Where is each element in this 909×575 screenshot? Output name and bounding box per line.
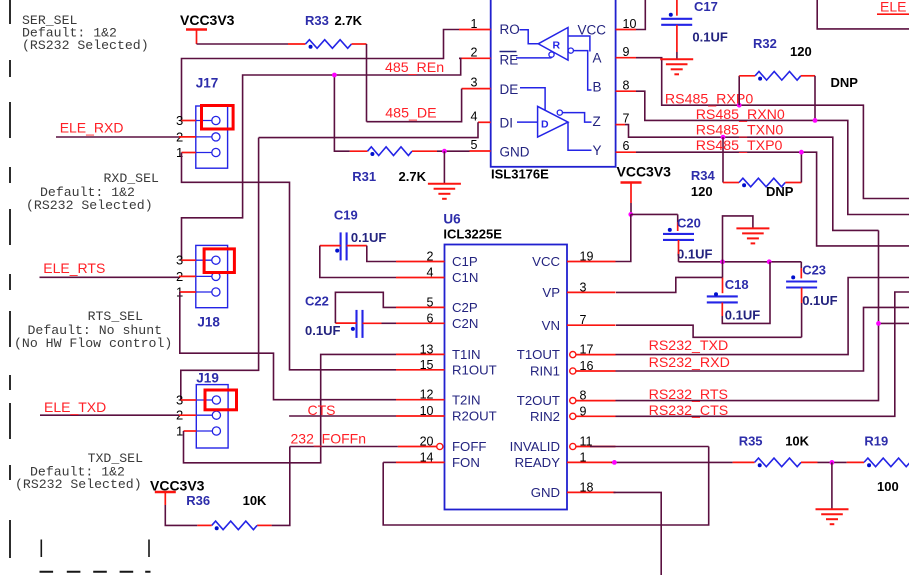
svg-text:J19: J19: [196, 371, 219, 386]
wire DE to driver enable: [520, 88, 545, 110]
svg-text:DI: DI: [500, 116, 514, 131]
svg-text:1: 1: [176, 423, 183, 438]
svg-text:C20: C20: [677, 216, 701, 231]
pin stub J17 pin1: [182, 152, 196, 154]
wire ELE_TXD: [40, 414, 179, 416]
svg-text:3: 3: [471, 76, 478, 90]
svg-text:DNP: DNP: [831, 75, 859, 90]
svg-text:RIN2: RIN2: [530, 409, 560, 424]
svg-text:VP: VP: [542, 285, 560, 300]
J18 shunt highlight red box: [204, 249, 234, 273]
svg-text:RIN1: RIN1: [530, 364, 560, 379]
svg-text:T1OUT: T1OUT: [517, 347, 560, 362]
wire VN pin7 to C23: [616, 325, 802, 337]
svg-text:RS485_RXN0: RS485_RXN0: [696, 107, 785, 123]
connector J18 pin2 circle: [196, 275, 212, 277]
svg-text:RS485_TXN0: RS485_TXN0: [696, 122, 784, 138]
svg-text:C19: C19: [334, 208, 358, 223]
svg-text:4: 4: [471, 110, 478, 124]
svg-text:RS232_RXD: RS232_RXD: [649, 355, 730, 371]
svg-text:T2OUT: T2OUT: [517, 393, 560, 408]
wire VP pin3 to C18: [616, 277, 723, 292]
wire 485_DE net: [367, 89, 462, 122]
pin stub J17 pin3: [182, 120, 196, 122]
junction TXN0 R34: [721, 135, 726, 140]
wire ground path from rail: [723, 216, 753, 262]
pin stub U6-4: [396, 277, 445, 279]
svg-text:INVALID: INVALID: [510, 439, 560, 454]
svg-text:RS485_TXP0: RS485_TXP0: [696, 138, 783, 154]
svg-text:485_DE: 485_DE: [385, 105, 436, 121]
svg-text:Y: Y: [593, 143, 602, 158]
svg-text:R34: R34: [691, 168, 716, 183]
svg-text:U6: U6: [443, 212, 461, 227]
wire FON pin14 feed: [383, 461, 396, 463]
wire R36 pullup leg: [272, 447, 290, 526]
pin stub U6-9: [570, 413, 576, 419]
svg-text:VCC3V3: VCC3V3: [617, 164, 672, 180]
wire R32 right leg: [814, 76, 816, 121]
wire R34 right leg: [800, 152, 802, 182]
wire C22 right plate to C2N pin6: [363, 322, 382, 324]
junction rail C18: [720, 259, 725, 264]
wire GND pin18 net: [614, 492, 662, 575]
svg-text:ISL3176E: ISL3176E: [491, 167, 549, 182]
pin stub U6-18: [567, 491, 616, 493]
wire C23 bottom stub: [801, 288, 803, 303]
svg-text:120: 120: [691, 184, 713, 199]
wire C18 bottom return loop: [721, 303, 723, 317]
pin stub U6-6: [396, 322, 445, 324]
wire to ground below R31: [443, 151, 445, 183]
junction R31-GND: [442, 149, 447, 154]
svg-text:6: 6: [623, 139, 630, 153]
J19 shunt highlight red box: [205, 390, 237, 410]
svg-text:R36: R36: [186, 493, 210, 508]
wire READY pin1 net: [612, 461, 733, 463]
wire R32 left leg: [738, 76, 740, 105]
wire RS485_RXP0 from pin9 A: [636, 58, 909, 199]
svg-text:GND: GND: [531, 485, 560, 500]
pin stub ISL pin9: [616, 57, 636, 59]
ground under R35: [816, 508, 849, 510]
svg-text:R35: R35: [739, 434, 763, 449]
svg-text:(RS232 Selected): (RS232 Selected): [26, 198, 153, 213]
wire VCC3V3 to C20: [631, 213, 678, 215]
wire red stub R36 left: [197, 524, 212, 526]
wire receiver input A: [568, 36, 590, 52]
svg-text:0.1UF: 0.1UF: [725, 308, 760, 323]
svg-text:VCC3V3: VCC3V3: [150, 478, 205, 494]
connector J19 body: [196, 385, 228, 448]
transceiver ISL3176E box: [491, 0, 616, 167]
resistor R19: [864, 458, 909, 467]
wire red stub R31 left: [350, 150, 368, 152]
junction RXN0 R32: [813, 118, 818, 123]
svg-text:C17: C17: [694, 0, 718, 14]
svg-text:10K: 10K: [243, 493, 267, 508]
wire R33 to 485_DE line: [366, 44, 368, 122]
wire red stub R35 right: [801, 461, 818, 463]
pin stub U6-11: [570, 443, 576, 449]
svg-text:T2IN: T2IN: [452, 392, 481, 407]
wire CTS to R2OUT pin10: [289, 415, 396, 417]
resistor R35: [755, 458, 801, 467]
junction R31 left on 485_REn: [334, 75, 349, 151]
connector J19 pin3 circle: [196, 399, 212, 401]
wire ELE box corner top right: [817, 0, 909, 29]
svg-text:DE: DE: [500, 82, 519, 97]
pin stub ISL pin10: [616, 29, 636, 31]
svg-text:R32: R32: [753, 36, 777, 51]
svg-text:VCC: VCC: [532, 254, 560, 269]
wire C17 bottom stub: [676, 25, 678, 52]
svg-text:2.7K: 2.7K: [335, 13, 363, 28]
power VCC3V3 bottom symbol: [155, 491, 176, 493]
wire RO net: chip pin1 to J17 pin3: [182, 30, 460, 121]
pin stub U6-1: [567, 461, 616, 463]
svg-text:FON: FON: [452, 455, 480, 470]
svg-text:232_FOFFn: 232_FOFFn: [291, 431, 366, 447]
wire 485_REn net: [182, 58, 461, 259]
svg-text:(RS232 Selected): (RS232 Selected): [15, 477, 142, 492]
wire RS232_RTS: [616, 230, 879, 400]
svg-text:(RS232 Selected): (RS232 Selected): [22, 38, 149, 53]
wire red stub R19 left: [847, 461, 864, 463]
svg-text:C2N: C2N: [452, 316, 478, 331]
wire RS232_RXD: [616, 307, 909, 371]
wire C19 left plate to C1N pin4: [320, 245, 341, 247]
capacitor C18: [707, 295, 738, 297]
wire ELE_RXD: [56, 136, 179, 138]
pin stub U6-14: [396, 461, 445, 463]
wire R36 to VCC3V3: [165, 505, 197, 525]
wire RS485_RXN0 from pin8 B: [636, 91, 909, 214]
pin stub J18 pin3: [182, 259, 196, 261]
wire RS232_CTS: [616, 292, 909, 416]
connector J19 pin1 circle: [196, 430, 212, 432]
svg-text:ELE: ELE: [880, 0, 906, 15]
svg-text:DNP: DNP: [766, 184, 794, 199]
svg-text:0.1UF: 0.1UF: [802, 293, 837, 308]
resistor R36: [212, 521, 257, 530]
capacitor C23: [786, 280, 817, 282]
svg-text:VCC3V3: VCC3V3: [180, 12, 235, 28]
pin stub ISL pin2: [459, 57, 491, 59]
svg-text:J17: J17: [196, 76, 219, 91]
pin stub J17 pin2: [179, 136, 196, 138]
svg-text:C23: C23: [802, 263, 826, 278]
svg-text:C22: C22: [305, 294, 329, 309]
svg-text:R1OUT: R1OUT: [452, 362, 497, 377]
resistor R33: [306, 40, 352, 49]
wire C23 top stub: [800, 262, 802, 268]
wire trunk to R1OUT-J19 pin3: [181, 138, 259, 400]
svg-text:READY: READY: [515, 455, 561, 470]
junction VCC3V3 mid: [628, 212, 633, 217]
connector J18 body: [196, 245, 228, 307]
wire VCC3V3 stem mid: [630, 183, 632, 204]
junction RXP0 R32: [737, 103, 742, 108]
pin stub U6-17: [570, 352, 576, 358]
wire ELE underline: [877, 13, 909, 15]
wire junction to ground: [831, 462, 833, 509]
connector J17 pin2 circle: [196, 136, 212, 138]
svg-text:R33: R33: [305, 13, 329, 28]
svg-text:ICL3225E: ICL3225E: [443, 227, 502, 242]
connector J17 body: [196, 106, 228, 168]
wire ISL pin10 VCC up: [636, 0, 645, 30]
svg-text:7: 7: [623, 112, 630, 126]
svg-text:120: 120: [790, 44, 812, 59]
connector J17 pin3 circle: [196, 120, 212, 122]
resistor R34: [739, 178, 785, 187]
svg-text:RS232_TXD: RS232_TXD: [649, 338, 729, 354]
svg-text:(No HW Flow control): (No HW Flow control): [14, 336, 172, 351]
connector J18 pin1 circle: [196, 291, 212, 293]
wire C18 top stub: [722, 262, 724, 278]
svg-text:J18: J18: [197, 315, 220, 330]
svg-text:C1P: C1P: [452, 254, 478, 269]
junction rail C18 return: [767, 259, 772, 264]
pin stub ISL pin3: [462, 88, 491, 90]
capacitor C19: [340, 232, 342, 260]
pin stub ISL pin4: [478, 121, 491, 123]
pin stub U6-5: [396, 306, 445, 308]
svg-text:B: B: [593, 80, 602, 95]
wire RS485_TXN0 from pin7 Z: [625, 125, 879, 231]
wire red stub R35 left: [733, 461, 755, 463]
svg-text:R19: R19: [864, 434, 888, 449]
pin stub J19 pin2: [179, 414, 196, 416]
pin stub ISL pin7: [616, 124, 625, 126]
svg-text:GND: GND: [500, 145, 530, 160]
junction READY: [612, 460, 617, 465]
power VCC3V3 top-left symbol: [186, 28, 207, 30]
power VCC3V3 mid symbol: [621, 181, 642, 183]
wire red stub R33 right: [352, 43, 367, 45]
svg-text:C18: C18: [725, 277, 749, 292]
capacitor C22: [355, 310, 357, 338]
connector J18 pin3 circle: [196, 259, 212, 261]
svg-text:R2OUT: R2OUT: [452, 409, 497, 424]
pin stub U6-2: [396, 261, 445, 263]
wire driver output Z with bubble: [557, 110, 562, 115]
resistor R32: [755, 72, 801, 81]
svg-text:RS232_RTS: RS232_RTS: [649, 387, 728, 403]
svg-text:FOFF: FOFF: [452, 439, 486, 454]
ground under C17: [660, 58, 693, 60]
svg-text:2: 2: [471, 46, 478, 60]
svg-text:485_REn: 485_REn: [385, 60, 444, 76]
wire red stub R32 right: [801, 75, 815, 77]
pin stub U6-10: [396, 415, 445, 417]
pin stub J19 pin1: [184, 430, 197, 432]
svg-text:0.1UF: 0.1UF: [692, 30, 727, 45]
svg-text:0.1UF: 0.1UF: [305, 323, 340, 338]
wire J17 pin1 down to R1OUT trunk: [182, 153, 397, 370]
svg-text:2.7K: 2.7K: [399, 169, 427, 184]
wire RE to receiver enable bubble: [516, 57, 552, 59]
pin stub U6-12: [396, 399, 445, 401]
wire R34 left leg: [722, 137, 724, 182]
driver buffer D inside ISL3176E: [538, 106, 568, 137]
svg-text:R: R: [553, 40, 561, 52]
wire driver output Y: [568, 122, 592, 150]
pin stub U6-15: [396, 369, 445, 371]
svg-text:0.1UF: 0.1UF: [351, 230, 386, 245]
pin stub J18 pin2: [179, 275, 196, 277]
wire RS232_TXD: [616, 278, 909, 355]
pin stub ISL pin5: [470, 150, 491, 152]
svg-text:10K: 10K: [785, 434, 809, 449]
wire DI to driver input: [517, 121, 538, 123]
J17 shunt highlight red box: [202, 106, 234, 130]
wire VCC to U6 pin19: [616, 214, 631, 261]
wire receiver input B with bubble: [568, 48, 573, 53]
svg-text:R31: R31: [352, 169, 376, 184]
wire C20 bottom stub: [678, 240, 680, 254]
junction RTS TXN0: [876, 321, 881, 326]
pin stub J18 pin1: [180, 291, 196, 293]
svg-text:ELE_TXD: ELE_TXD: [44, 399, 106, 415]
wire ELE_RTS: [40, 276, 180, 278]
wire red stub R31 right: [412, 150, 437, 152]
capacitor C17: [661, 18, 692, 20]
connector J19 pin2 circle: [196, 414, 212, 416]
svg-text:A: A: [593, 51, 602, 66]
wire DI feed from trunk: [259, 122, 478, 137]
svg-text:C1N: C1N: [452, 270, 478, 285]
svg-text:ELE_RXD: ELE_RXD: [60, 120, 124, 136]
wire RO to receiver apex: [520, 30, 539, 44]
pin stub U6-20: [398, 446, 437, 448]
sheet border dashed left edge: [9, 0, 11, 558]
pin stub U6-13: [396, 353, 445, 355]
pin stub U6-7: [567, 324, 616, 326]
pin stub U6-3: [567, 291, 616, 293]
wire decoupling rail y262: [679, 261, 802, 263]
wire C22 left plate to C2P pin5: [335, 322, 356, 324]
junction TXP0 R34: [799, 150, 804, 155]
svg-text:Z: Z: [593, 114, 601, 129]
connector J17 pin1 circle: [196, 152, 212, 154]
wire VCC3V3 stem to R33: [196, 30, 198, 45]
pin stub U6-16: [570, 368, 576, 374]
svg-text:ELE_RTS: ELE_RTS: [43, 260, 105, 276]
pin stub U6-8: [570, 398, 576, 404]
wire red stub R34 right: [785, 182, 801, 184]
svg-text:100: 100: [877, 479, 899, 494]
svg-text:RTS_SEL: RTS_SEL: [88, 309, 143, 324]
wire RS485_TXP0 from pin6 Y: [636, 152, 909, 246]
svg-text:VN: VN: [542, 318, 560, 333]
svg-text:T1IN: T1IN: [452, 347, 481, 362]
wire FON-INVALID loop: [383, 447, 709, 526]
wire INVALID pin11 to loop: [590, 446, 709, 448]
svg-text:0.1UF: 0.1UF: [677, 247, 712, 262]
wire 232_FOFFn net: [290, 446, 398, 448]
wire C20 top stub: [677, 214, 679, 222]
svg-text:RE: RE: [500, 53, 519, 68]
pin stub ISL pin6: [616, 151, 636, 153]
wire RS232_RTS exit: [879, 322, 909, 324]
svg-text:RO: RO: [500, 22, 520, 37]
ground under R31: [428, 183, 461, 185]
svg-text:RS232_CTS: RS232_CTS: [649, 403, 729, 419]
svg-text:RXD_SEL: RXD_SEL: [104, 171, 159, 186]
wire J18 pin1 to T2IN: [180, 292, 396, 400]
svg-text:D: D: [541, 119, 549, 131]
wire R35-R19 junction: [818, 461, 847, 463]
ground mid: [736, 227, 769, 229]
wire red stub R33 left: [288, 43, 306, 45]
svg-text:5: 5: [471, 138, 478, 152]
pin stub U6-19: [567, 261, 616, 263]
title block dashed bottom line: [40, 571, 151, 573]
capacitor C20: [663, 233, 694, 235]
title block tick marks bottom: [41, 540, 149, 558]
svg-text:CTS: CTS: [308, 402, 336, 418]
receiver buffer R inside U ISL3176E: [538, 28, 568, 61]
wire J19 pin1 to T1IN trunk: [184, 354, 397, 462]
wire C17 top stub: [676, 0, 678, 16]
wire R31 to GND pin5: [437, 150, 470, 152]
svg-text:C2P: C2P: [452, 300, 478, 315]
wire red stub R36 right: [257, 524, 272, 526]
pin stub ISL pin8: [616, 90, 636, 92]
ic U6 box: [445, 245, 568, 510]
pin stub ISL pin1: [459, 29, 491, 31]
wire C19 right plate to C1P pin2: [347, 245, 367, 247]
resistor R31: [368, 147, 413, 156]
pin stub J19 pin3: [181, 399, 197, 401]
